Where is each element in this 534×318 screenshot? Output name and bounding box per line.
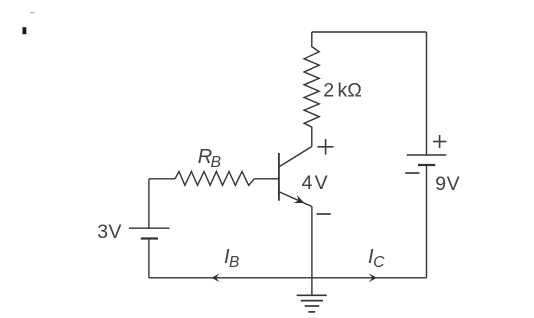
svg-text:9V: 9V <box>435 173 459 195</box>
current arrow IC (points right) <box>369 273 377 282</box>
wire: right rail upper <box>426 32 428 155</box>
svg-text:B: B <box>211 154 221 171</box>
wire: left rail lower <box>148 239 150 278</box>
transistor Q1: base bar <box>278 153 280 201</box>
battery V2 9V: short plate (−) <box>418 164 435 166</box>
polarity + (collector, VCE) <box>318 139 334 155</box>
transistor Q1: emitter lead (diagonal) <box>279 192 312 207</box>
svg-text:C: C <box>373 254 385 271</box>
wire: base lead <box>149 178 175 180</box>
current arrow IB (points left) <box>212 273 220 282</box>
wire: top rail <box>312 31 427 33</box>
stray mark (print artifact, faint dash) <box>30 12 34 14</box>
wire: emitter down to ground <box>311 207 313 296</box>
polarity − (9V battery) <box>405 172 419 174</box>
svg-text:2kΩ: 2kΩ <box>323 80 362 102</box>
svg-text:B: B <box>229 254 239 271</box>
svg-text:4V: 4V <box>302 172 328 194</box>
transistor Q1: collector lead (diagonal) <box>279 147 312 167</box>
transistor Q1: emitter arrow <box>294 195 305 203</box>
wire: left rail upper <box>148 179 150 228</box>
resistor RB (horizontal zigzag) <box>175 172 254 186</box>
polarity + (9V battery) <box>433 135 446 148</box>
battery V2 9V: long plate (+) <box>407 154 447 156</box>
wire: bottom rail <box>149 277 427 279</box>
wire: right rail lower <box>426 165 428 278</box>
wire: RB to base <box>254 178 279 180</box>
resistor 2kΩ (collector load, vertical zigzag with stubs) <box>304 32 319 147</box>
battery V1 3V: long plate (+) <box>129 227 170 229</box>
ground <box>297 295 327 312</box>
svg-text:3V: 3V <box>97 221 121 243</box>
stray mark (print artifact, dark bar) <box>23 27 27 34</box>
battery V1 3V: short plate (−) <box>141 237 158 239</box>
polarity − (emitter, VCE) <box>317 213 331 215</box>
